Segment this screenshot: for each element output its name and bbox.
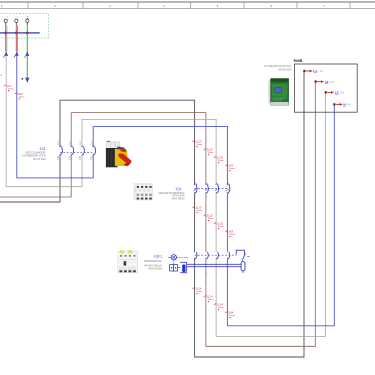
svg-text:2T1: 2T1 — [79, 155, 82, 160]
svg-text:/ 14: / 14 — [318, 69, 323, 73]
svg-text:10mm: 10mm — [229, 234, 235, 236]
wire tag 1L1 — [4, 84, 14, 92]
1QF1 RCD photo — [118, 250, 138, 272]
bus junction — [15, 32, 18, 35]
svg-text:10mm: 10mm — [229, 315, 235, 317]
svg-text:/ 16: / 16 — [330, 80, 335, 84]
wire PE incoming green — [26, 25, 28, 77]
incoming terminal X2 — [15, 19, 18, 22]
meter terminal L2 — [315, 80, 317, 82]
1QF1 description — [144, 259, 162, 271]
RCD test button circle — [171, 255, 176, 260]
bus junction — [4, 32, 7, 35]
terminal PE mark — [26, 16, 28, 18]
wire tag 1L23 — [204, 214, 214, 222]
wire L1 path feed-switch-breaker-meter — [0, 72, 304, 357]
symbol gaps — [60, 147, 227, 258]
svg-text:1L13: 1L13 — [195, 206, 201, 210]
neutral distribution bus — [0, 32, 40, 34]
wire tag 1N3 — [225, 164, 235, 172]
RCD 1QF1 pole 4 — [227, 252, 230, 259]
meter description — [264, 65, 292, 71]
svg-text:1L1: 1L1 — [7, 84, 12, 88]
svg-text:1L1: 1L1 — [57, 140, 60, 145]
RCD mechanism box — [236, 250, 244, 255]
connector arrow up — [15, 51, 19, 56]
RCD 1QF1 dashed link — [195, 254, 237, 256]
header band bottom line — [0, 7, 375, 9]
incoming terminal X1 — [4, 19, 7, 22]
svg-text:AHXI HA52: AHXI HA52 — [148, 267, 162, 271]
svg-text:1L14: 1L14 — [195, 287, 201, 291]
svg-text:3P+N 63A: 3P+N 63A — [33, 157, 46, 161]
svg-text:2T1: 2T1 — [90, 155, 93, 160]
breaker 1Q1 pole 3 — [216, 185, 219, 193]
svg-text:1L34: 1L34 — [217, 303, 223, 307]
svg-text:1QF1: 1QF1 — [154, 255, 162, 259]
breaker 1Q1 pole 2 — [206, 185, 209, 193]
1Q1 description — [159, 191, 185, 201]
meter terminal L1 — [303, 70, 305, 72]
svg-text:10mm: 10mm — [19, 96, 25, 98]
meter terminal L3 — [325, 91, 327, 93]
svg-text:10mm: 10mm — [196, 291, 202, 293]
svg-text:10mm: 10mm — [218, 307, 224, 309]
svg-text:1L23: 1L23 — [207, 148, 213, 152]
svg-text:1L13: 1L13 — [195, 140, 201, 144]
svg-text:1L1: 1L1 — [90, 140, 93, 145]
drawing border top line — [0, 1, 375, 3]
connector arrow up — [4, 51, 8, 56]
disconnector 1S1 pole 3 — [82, 147, 85, 155]
wire tag 1N3 — [225, 230, 235, 238]
svg-text:2T1: 2T1 — [57, 155, 60, 160]
svg-text:iEM3255EB: iEM3255EB — [278, 69, 292, 72]
wire L1 incoming gray pair — [6, 25, 8, 51]
svg-text:10mm: 10mm — [208, 152, 214, 154]
wire tag 1L13 — [193, 206, 203, 214]
svg-text:DIFERENCIAL: DIFERENCIAL — [144, 259, 162, 263]
breaker 1Q1 pole 4 — [227, 185, 230, 193]
breaker 1Q1 dashed link — [195, 187, 228, 189]
wire L2 incoming red — [15, 25, 17, 51]
disconnector 1S1 pole 2 — [71, 147, 74, 155]
svg-text:1L33: 1L33 — [217, 222, 223, 226]
wire L2 incoming blue pair — [16, 25, 18, 51]
svg-text:10mm: 10mm — [196, 210, 202, 212]
bus junction — [26, 32, 29, 35]
meter photo — [268, 79, 288, 106]
RCD 1QF1 pole 3 — [216, 252, 219, 259]
svg-text:1N0: 1N0 — [18, 92, 23, 96]
svg-text:EMB: EMB — [294, 58, 303, 63]
wire tag 1L23 — [204, 148, 214, 156]
svg-text:L1: L1 — [313, 69, 317, 73]
svg-text:1L1: 1L1 — [68, 140, 71, 145]
svg-text:10mm: 10mm — [218, 160, 224, 162]
svg-text:10mm: 10mm — [208, 299, 214, 301]
svg-text:10mm: 10mm — [218, 226, 224, 228]
wire tag 1N4 — [225, 311, 235, 319]
header column numbers 1-7 — [1, 4, 325, 8]
svg-text:10mm: 10mm — [208, 218, 214, 220]
incoming terminal X3 — [26, 19, 29, 22]
disconnector 1S1 dashed link — [60, 151, 93, 153]
wire L1 incoming red — [5, 25, 7, 51]
svg-text:ANYTMA3: ANYTMA3 — [172, 196, 185, 200]
RCD 1QF1 pole 1 — [194, 252, 197, 259]
wire tag 1L14 — [193, 287, 203, 295]
EMB enclosure box — [295, 64, 358, 112]
svg-text:-1S1: -1S1 — [39, 147, 46, 151]
RCD 1QF1 pole 2 — [206, 252, 209, 259]
wire L3 path terminal-switch-breaker-meter — [6, 56, 325, 337]
meter terminal N — [333, 103, 335, 105]
wire tag 1L13 — [193, 140, 203, 148]
wire tag 1N0 — [15, 92, 25, 100]
connector arrow up — [25, 51, 29, 56]
wire tag 1L33 — [214, 222, 224, 230]
breaker 1Q1 pole 1 — [194, 185, 197, 193]
RCD terminal squares — [170, 265, 174, 271]
svg-text:1L1: 1L1 — [79, 140, 82, 145]
RCD sensing double bus — [187, 263, 242, 265]
svg-text:1N3: 1N3 — [228, 230, 233, 234]
1Q1 breaker photo — [134, 184, 153, 200]
svg-text:1L24: 1L24 — [207, 295, 213, 299]
svg-text:10mm: 10mm — [196, 144, 202, 146]
wire tag 1L33 — [214, 156, 224, 164]
wire L2 path feed-switch-breaker-meter — [0, 82, 315, 346]
svg-text:10mm: 10mm — [229, 168, 235, 170]
disconnector 1S1 pole 1 — [60, 147, 63, 155]
header column ticks — [28, 2, 350, 8]
ground PE connector arrow down — [25, 78, 29, 83]
RCD trip blade right — [242, 253, 245, 260]
incoming supply dashed enclosure — [0, 14, 48, 38]
svg-text:/ 18: / 18 — [340, 91, 345, 95]
disconnector 1S1 pole 4 — [93, 147, 96, 155]
wire N path terminal-switch-breaker-meter — [17, 56, 335, 326]
svg-text:2T1: 2T1 — [68, 155, 71, 160]
RCD coil capsule — [241, 262, 245, 271]
svg-text:1L33: 1L33 — [217, 156, 223, 160]
wire tag 1L24 — [204, 295, 214, 303]
1S1 rotary switch photo — [106, 141, 132, 168]
wire tag 1L34 — [214, 303, 224, 311]
svg-text:1N3: 1N3 — [228, 164, 233, 168]
svg-text:1N4: 1N4 — [228, 311, 233, 315]
svg-text:1L23: 1L23 — [207, 214, 213, 218]
svg-text:/ 40: / 40 — [346, 103, 351, 107]
1S1 description — [22, 150, 46, 161]
svg-text:10mm: 10mm — [8, 88, 14, 90]
svg-text:1Q1: 1Q1 — [175, 187, 181, 191]
PE node dot — [22, 78, 24, 80]
RCD toroid — [180, 262, 186, 272]
